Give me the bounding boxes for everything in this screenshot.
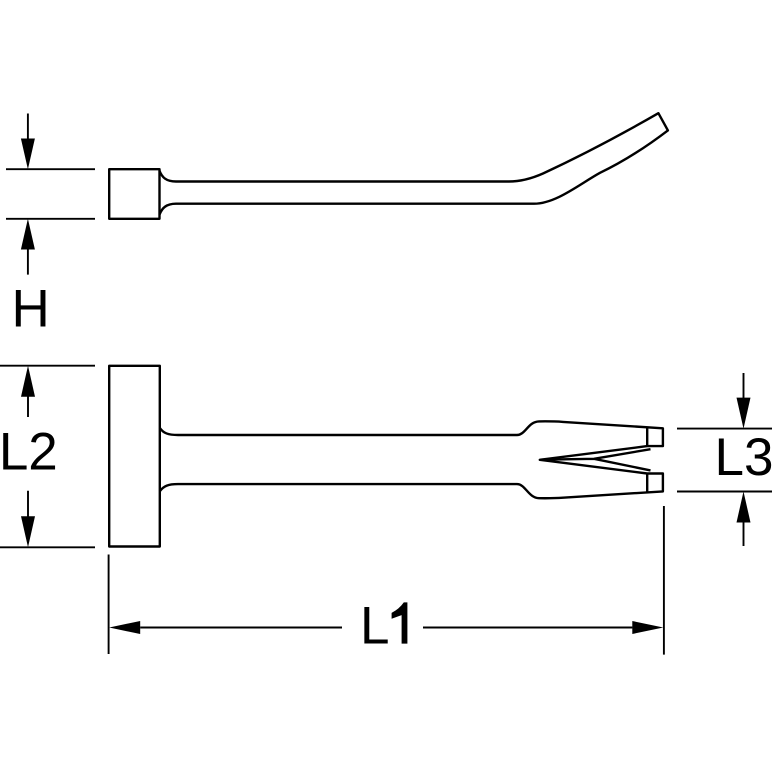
svg-text:H: H [12, 280, 50, 339]
svg-text:L: L [360, 597, 389, 656]
svg-text:L3: L3 [715, 428, 772, 487]
svg-text:L2: L2 [0, 423, 58, 482]
